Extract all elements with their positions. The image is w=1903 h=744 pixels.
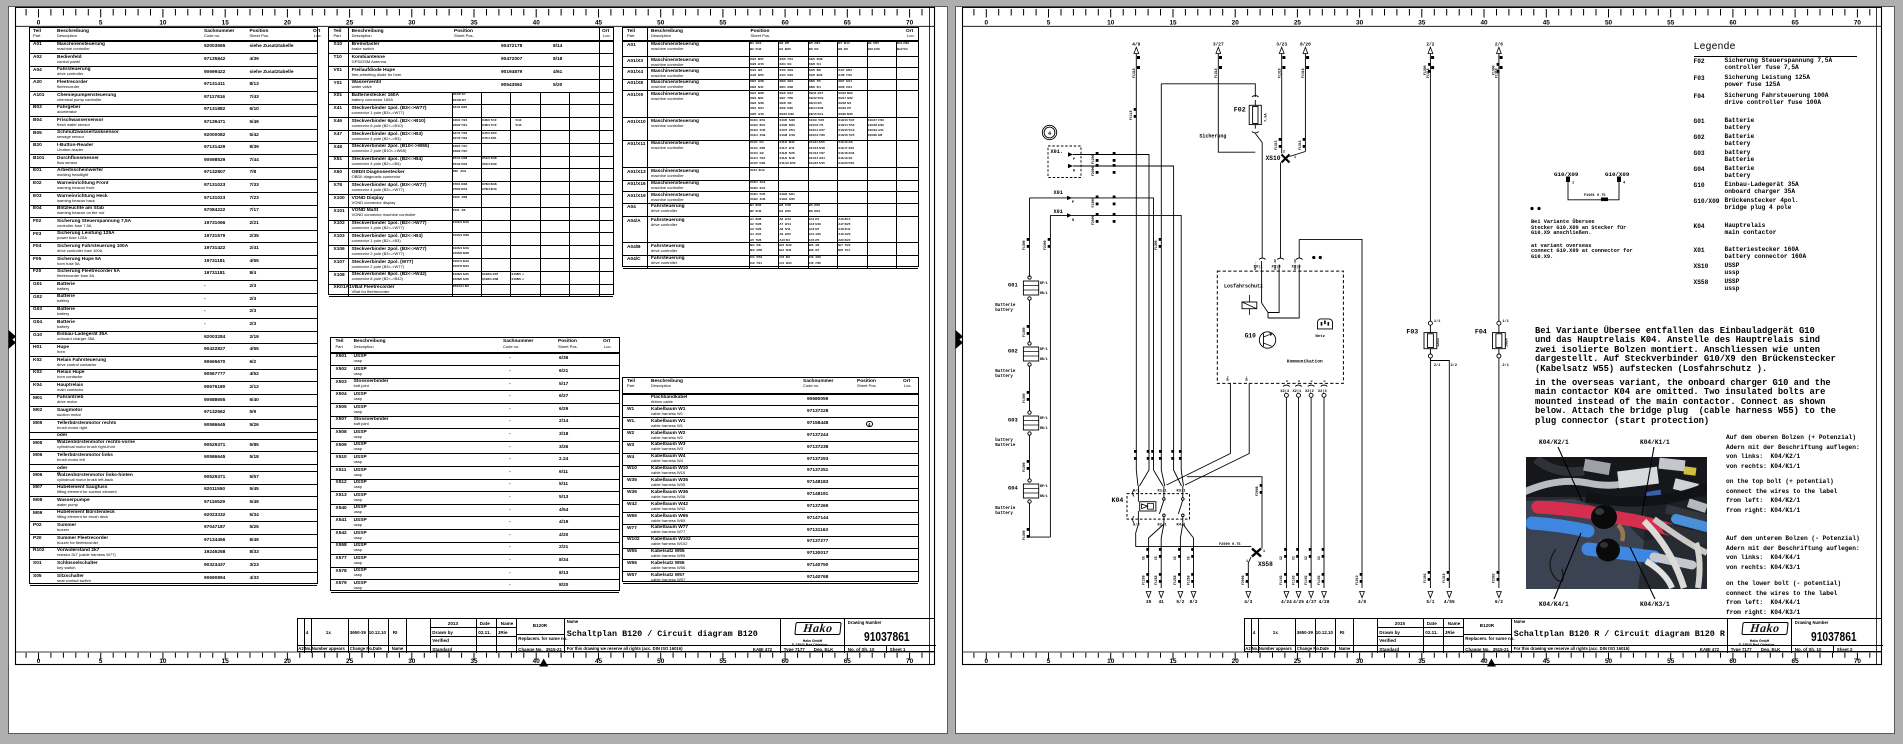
svg-text:35: 35 xyxy=(1146,599,1152,605)
main wire bundle into contactor K04 xyxy=(1136,54,1138,486)
svg-text:25: 25 xyxy=(346,658,354,665)
svg-text:Sicherung: Sicherung xyxy=(1199,134,1226,140)
svg-text:K1/1: K1/1 xyxy=(1158,489,1168,494)
svg-text:A/2: A/2 xyxy=(1133,523,1141,528)
svg-text:F02: F02 xyxy=(1234,107,1246,114)
svg-text:F1102: F1102 xyxy=(1304,575,1308,585)
svg-text:K: K xyxy=(1324,380,1327,382)
svg-text:F2099 0.75: F2099 0.75 xyxy=(1219,543,1241,547)
svg-text:35: 35 xyxy=(470,20,478,27)
svg-text:15: 15 xyxy=(222,658,230,665)
svg-text:10: 10 xyxy=(159,20,167,27)
svg-text:65: 65 xyxy=(844,658,852,665)
svg-text:F1318: F1318 xyxy=(1442,573,1446,583)
parts table Cb (cable harness list) xyxy=(622,377,919,582)
svg-text:45: 45 xyxy=(595,658,603,665)
svg-text:F1318: F1318 xyxy=(1214,68,1218,78)
svg-text:Losfahrschutz: Losfahrschutz xyxy=(1224,284,1263,290)
svg-text:2/1: 2/1 xyxy=(1502,363,1508,368)
svg-text:G10: G10 xyxy=(1245,333,1256,340)
svg-text:BN/1: BN/1 xyxy=(1040,357,1048,361)
svg-text:55: 55 xyxy=(719,658,727,665)
svg-text:BA-: BA- xyxy=(1245,375,1248,381)
svg-text:BP/1: BP/1 xyxy=(1040,484,1048,488)
svg-text:4/27: 4/27 xyxy=(1306,599,1317,605)
title block page 2 xyxy=(1244,618,1882,652)
svg-text:X01.: X01. xyxy=(1051,149,1063,155)
ruler ticks xyxy=(974,9,1870,660)
svg-text:XS58: XS58 xyxy=(1258,561,1273,568)
svg-text:F1300: F1300 xyxy=(1022,327,1026,337)
svg-text:X2: X2 xyxy=(1279,556,1283,560)
bolt wiring instructions xyxy=(1726,433,1860,471)
overseas note (small) xyxy=(1531,220,1626,237)
svg-text:50: 50 xyxy=(657,658,665,665)
onboard charger dashed box xyxy=(1217,271,1343,383)
Hako logo xyxy=(794,622,841,635)
main paragraph DE xyxy=(1535,327,1836,375)
svg-text:10: 10 xyxy=(159,658,167,665)
svg-text:60: 60 xyxy=(782,658,790,665)
svg-text:F1118: F1118 xyxy=(1129,110,1133,120)
svg-text:60: 60 xyxy=(782,20,790,27)
circled 4 marker xyxy=(1042,125,1056,139)
svg-text:1: 1 xyxy=(1263,550,1265,554)
svg-text:1/1: 1/1 xyxy=(1434,319,1440,324)
svg-text:BP/1: BP/1 xyxy=(1040,416,1048,420)
left return of F02 loop xyxy=(1218,54,1255,153)
svg-text:F1300: F1300 xyxy=(1022,240,1026,250)
svg-text:G03: G03 xyxy=(1008,418,1018,424)
svg-text:G02: G02 xyxy=(1008,349,1018,355)
svg-text:F2098: F2098 xyxy=(1241,575,1245,585)
svg-text:F1302: F1302 xyxy=(1423,573,1427,583)
svg-text:G04: G04 xyxy=(1008,486,1018,492)
svg-text:F1300: F1300 xyxy=(1022,462,1026,472)
svg-text:K: K xyxy=(1311,380,1314,382)
main paragraph EN xyxy=(1535,379,1836,427)
svg-text:F1318: F1318 xyxy=(1132,68,1136,78)
fold marks xyxy=(956,330,964,349)
parts table A (A01..S05) xyxy=(29,27,319,584)
wire to fuse F02 xyxy=(1161,84,1255,97)
svg-text:2/2: 2/2 xyxy=(1451,363,1457,368)
svg-text:X2: X2 xyxy=(1291,556,1295,560)
page 1 frame and rulers xyxy=(8,6,948,734)
svg-text:K04: K04 xyxy=(1112,497,1124,504)
svg-text:4/25: 4/25 xyxy=(1293,599,1304,605)
wires from X01. to K04 bundle xyxy=(1073,155,1149,487)
switch XS58 xyxy=(1252,549,1261,557)
svg-text:100A: 100A xyxy=(1505,338,1509,347)
svg-text:4/28: 4/28 xyxy=(1319,599,1330,605)
svg-text:4/9: 4/9 xyxy=(1132,42,1140,48)
svg-text:F1258: F1258 xyxy=(1186,575,1190,585)
svg-text:Netz: Netz xyxy=(1315,335,1325,339)
svg-text:X01: X01 xyxy=(1054,190,1063,196)
svg-text:F1258: F1258 xyxy=(1173,575,1177,585)
svg-text:K3/1: K3/1 xyxy=(1177,489,1187,494)
parts table Bb (X501..X579) xyxy=(330,337,620,591)
svg-text:7,5A: 7,5A xyxy=(1265,113,1269,122)
svg-text:40: 40 xyxy=(533,20,541,27)
svg-text:1: 1 xyxy=(1572,182,1574,186)
svg-text:F2302: F2302 xyxy=(1492,573,1496,583)
svg-text:A/1: A/1 xyxy=(1133,489,1141,494)
legend xyxy=(1694,42,1736,53)
svg-text:Batterie: Batterie xyxy=(995,369,1016,374)
svg-text:F2000: F2000 xyxy=(1091,166,1095,176)
reference dots xyxy=(1530,207,1533,210)
svg-text:X01: X01 xyxy=(1054,209,1063,215)
svg-text:XS10: XS10 xyxy=(1266,155,1281,162)
title block page 1 xyxy=(297,618,935,652)
svg-text:0: 0 xyxy=(37,658,41,665)
svg-text:Kommunikation: Kommunikation xyxy=(1287,359,1323,365)
svg-text:20: 20 xyxy=(284,658,292,665)
parts table B (S10..XK01A1) xyxy=(328,27,614,295)
svg-text:F1300: F1300 xyxy=(1154,240,1158,250)
svg-text:F1258: F1258 xyxy=(1141,575,1145,585)
svg-text:4/8: 4/8 xyxy=(1358,599,1366,605)
svg-text:F1316: F1316 xyxy=(1298,140,1302,150)
svg-text:F1300: F1300 xyxy=(1423,65,1427,75)
svg-text:1: 1 xyxy=(1246,560,1248,564)
svg-text:F1102: F1102 xyxy=(1291,575,1295,585)
svg-text:5/2: 5/2 xyxy=(1176,599,1184,605)
K04 outputs to arrows xyxy=(1136,524,1139,547)
svg-text:5/1: 5/1 xyxy=(1426,599,1434,605)
fold marks xyxy=(9,330,17,349)
connector X01. dashed box xyxy=(1048,146,1081,178)
svg-text:3/23: 3/23 xyxy=(1276,42,1287,48)
svg-text:F03: F03 xyxy=(1406,329,1418,336)
Netz plug icon xyxy=(1318,319,1333,329)
svg-text:X5: X5 xyxy=(1141,556,1145,560)
svg-text:F1013: F1013 xyxy=(1355,575,1359,585)
svg-text:K: K xyxy=(1298,380,1301,382)
svg-text:15: 15 xyxy=(222,20,230,27)
svg-text:125A: 125A xyxy=(1437,338,1441,347)
svg-text:2: 2 xyxy=(1283,151,1285,155)
svg-text:F04: F04 xyxy=(1475,329,1487,336)
svg-text:0: 0 xyxy=(37,20,41,27)
svg-text:6/2: 6/2 xyxy=(1495,599,1503,605)
svg-text:55: 55 xyxy=(719,20,727,27)
svg-text:F1102: F1102 xyxy=(1279,575,1283,585)
svg-text:X9|3: X9|3 xyxy=(1292,264,1302,269)
svg-text:30: 30 xyxy=(408,20,416,27)
ruler ticks xyxy=(26,9,922,660)
svg-text:F1318: F1318 xyxy=(1301,68,1305,78)
svg-text:2/1: 2/1 xyxy=(1434,363,1440,368)
svg-text:K: K xyxy=(1286,380,1289,382)
svg-text:X5: X5 xyxy=(1173,556,1177,560)
drawing frame xyxy=(963,7,1882,664)
svg-text:Batterie: Batterie xyxy=(995,303,1016,308)
switch XS10 xyxy=(1281,54,1283,154)
svg-text:battery: battery xyxy=(995,374,1013,379)
svg-text:F2000: F2000 xyxy=(1091,215,1095,225)
svg-text:BA+: BA+ xyxy=(1227,375,1230,381)
svg-text:Batterie: Batterie xyxy=(995,506,1016,511)
svg-text:20: 20 xyxy=(284,20,292,27)
svg-text:F1300: F1300 xyxy=(1091,198,1095,208)
svg-text:1/1: 1/1 xyxy=(1502,319,1508,324)
svg-text:5: 5 xyxy=(99,20,103,27)
svg-text:1: 1 xyxy=(1294,156,1296,160)
svg-text:25: 25 xyxy=(346,20,354,27)
svg-text:F1300: F1300 xyxy=(1492,65,1496,75)
svg-text:N: N xyxy=(1073,170,1075,174)
svg-text:F2300: F2300 xyxy=(1043,240,1047,250)
relay inside charger xyxy=(1261,261,1263,303)
Hako logo xyxy=(1741,622,1788,635)
photo callout labels xyxy=(1539,439,1569,446)
svg-text:30: 30 xyxy=(408,658,416,665)
svg-text:X2: X2 xyxy=(1317,556,1321,560)
page 2 frame and rulers xyxy=(955,6,1895,734)
svg-text:F1315: F1315 xyxy=(1274,140,1278,150)
svg-text:G01: G01 xyxy=(1008,283,1018,289)
svg-text:N: N xyxy=(1072,219,1074,223)
svg-text:50: 50 xyxy=(657,20,665,27)
svg-text:F1102: F1102 xyxy=(1317,575,1321,585)
svg-text:Batterie: Batterie xyxy=(995,443,1016,448)
svg-text:X2: X2 xyxy=(1304,556,1308,560)
svg-text:F1001 0.75: F1001 0.75 xyxy=(1584,194,1606,198)
svg-text:40: 40 xyxy=(533,658,541,665)
svg-text:battery: battery xyxy=(995,511,1013,516)
fuse F02 xyxy=(1252,96,1259,97)
svg-text:P: P xyxy=(1072,201,1074,205)
svg-text:F1318: F1318 xyxy=(1278,68,1282,78)
svg-text:X9|4: X9|4 xyxy=(1272,264,1282,269)
svg-text:F1300: F1300 xyxy=(1022,393,1026,403)
svg-text:BN/1: BN/1 xyxy=(1040,494,1048,498)
svg-text:2/2: 2/2 xyxy=(1426,42,1434,48)
svg-text:F1258: F1258 xyxy=(1154,575,1158,585)
svg-text:4/3: 4/3 xyxy=(1244,599,1252,605)
svg-text:X5: X5 xyxy=(1186,556,1190,560)
svg-text:8/2: 8/2 xyxy=(1189,599,1197,605)
svg-text:BN/1: BN/1 xyxy=(1040,291,1048,295)
svg-text:4/24: 4/24 xyxy=(1281,599,1292,605)
svg-text:8/20: 8/20 xyxy=(1300,42,1311,48)
svg-text:battery: battery xyxy=(995,438,1013,443)
svg-text:4/55: 4/55 xyxy=(1444,599,1455,605)
svg-text:4: 4 xyxy=(1048,131,1051,137)
svg-text:4: 4 xyxy=(1623,182,1626,186)
svg-text:3/27: 3/27 xyxy=(1213,42,1224,48)
svg-text:BN/1: BN/1 xyxy=(1040,426,1048,430)
svg-text:F1200: F1200 xyxy=(1091,154,1095,164)
svg-text:70: 70 xyxy=(906,658,914,665)
parts table C (A01../A04.. pinout) xyxy=(622,27,919,267)
svg-text:41: 41 xyxy=(1158,599,1164,605)
svg-text:P: P xyxy=(1073,158,1075,162)
battery chain rails xyxy=(1029,198,1031,277)
svg-text:45: 45 xyxy=(595,20,603,27)
svg-text:5: 5 xyxy=(99,658,103,665)
svg-text:35: 35 xyxy=(470,658,478,665)
top destination arrows xyxy=(1134,47,1139,53)
svg-text:2/6: 2/6 xyxy=(1495,42,1503,48)
photo of contactor bolts xyxy=(1526,457,1707,589)
svg-text:F1300: F1300 xyxy=(1022,530,1026,540)
svg-text:BP/1: BP/1 xyxy=(1040,281,1048,285)
switch XS58 wire from K04 xyxy=(1136,546,1252,548)
svg-text:BP/1: BP/1 xyxy=(1040,347,1048,351)
svg-text:F2098: F2098 xyxy=(1255,486,1259,496)
svg-text:65: 65 xyxy=(844,20,852,27)
drawing frame xyxy=(16,7,935,664)
wire X9|3 to 4/8 xyxy=(1299,239,1362,588)
svg-text:X5: X5 xyxy=(1154,556,1158,560)
svg-text:battery: battery xyxy=(995,308,1013,313)
svg-text:70: 70 xyxy=(906,20,914,27)
